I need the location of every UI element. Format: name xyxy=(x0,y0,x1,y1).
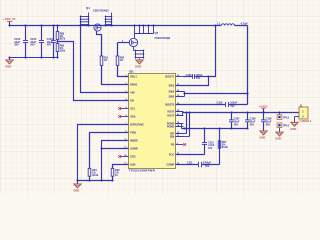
ground C109 xyxy=(259,131,267,140)
svg-text:VOUT: VOUT xyxy=(167,110,175,114)
resistor R90 100k xyxy=(56,42,66,58)
svg-text:4.7uH: 4.7uH xyxy=(241,22,248,25)
svg-text:887k: 887k xyxy=(60,37,66,40)
svg-text:TP14: TP14 xyxy=(283,125,290,128)
wire boot node to SW1 pin xyxy=(176,77,209,86)
capacitor C107 10uF xyxy=(229,113,240,129)
transistor Q7 CSD17304Q3 xyxy=(129,24,170,58)
junction dots on PGND rail xyxy=(183,127,248,129)
svg-text:C106: C106 xyxy=(217,102,223,105)
wire SW2 pins to node xyxy=(176,92,248,97)
svg-text:CSD17304Q3: CSD17304Q3 xyxy=(93,10,109,13)
resistor R95 1k xyxy=(111,165,120,181)
junction dots on VOUT rail xyxy=(185,111,280,113)
capacitor C109 22uF xyxy=(261,113,272,131)
svg-text:25V: 25V xyxy=(47,43,52,47)
svg-text:FB: FB xyxy=(171,143,175,147)
resistor R89 887k xyxy=(56,26,66,42)
wire PGND rail xyxy=(182,128,248,130)
inductor L1 4.7uH xyxy=(217,21,247,25)
power port +5VCN xyxy=(259,104,268,112)
svg-text:TPS55288RPMR: TPS55288RPMR xyxy=(129,169,156,173)
svg-text:VOUT: VOUT xyxy=(167,114,175,118)
node AGND junction xyxy=(100,147,102,149)
wire VOUT pins bracket xyxy=(176,112,183,116)
svg-text:C105: C105 xyxy=(186,74,192,77)
svg-text:50V: 50V xyxy=(196,77,201,80)
IC right pins xyxy=(165,75,183,167)
svg-text:PGND: PGND xyxy=(167,125,175,129)
node divider junction xyxy=(56,40,58,42)
wire ILIM to R95 xyxy=(113,165,129,169)
svg-text:50V: 50V xyxy=(230,105,235,108)
ground bottom left xyxy=(73,181,81,193)
svg-text:SW1: SW1 xyxy=(169,84,175,88)
svg-text:AGND: AGND xyxy=(130,147,138,151)
wire VIN top rail xyxy=(10,25,222,27)
svg-text:DITH/SYNC: DITH/SYNC xyxy=(130,123,144,127)
resistor R91 xyxy=(100,35,109,85)
svg-text:TP13: TP13 xyxy=(283,116,290,119)
resistor R92 xyxy=(116,43,125,77)
power port +VDC_IN xyxy=(3,17,15,26)
wire R92 to DRVL pin xyxy=(118,65,129,76)
svg-text:VIN: VIN xyxy=(130,91,134,95)
svg-text:+VDC_IN: +VDC_IN xyxy=(3,17,15,21)
capacitor C108 22uF xyxy=(245,113,256,129)
capacitor C106 100nF boot2 xyxy=(176,102,248,108)
svg-text:C111: C111 xyxy=(187,162,193,165)
wire ISN sense xyxy=(176,113,190,137)
wire Q7 gate to R92 xyxy=(118,40,130,56)
node boot1 xyxy=(207,75,209,77)
resistor R94 49.9k xyxy=(88,133,99,181)
wire DITH/SYNC to gnd rail xyxy=(78,125,129,181)
node SW2 xyxy=(246,92,248,94)
svg-text:43.2k: 43.2k xyxy=(222,146,229,149)
svg-text:1-282834-2: 1-282834-2 xyxy=(299,120,311,123)
wire rail to VIN pin xyxy=(81,26,129,93)
junction dots on input rail xyxy=(8,24,216,26)
svg-text:GND: GND xyxy=(290,127,296,131)
svg-text:COMP: COMP xyxy=(167,163,175,167)
no-connect X marks SCL SDA CDC FB xyxy=(118,107,186,158)
capacitor C111 2200pF comp xyxy=(176,162,220,168)
svg-text:GND: GND xyxy=(259,136,265,140)
ground input xyxy=(5,58,13,69)
svg-text:Q4: Q4 xyxy=(86,6,90,10)
test point TP14 xyxy=(277,123,289,132)
svg-text:25V: 25V xyxy=(30,43,35,47)
ground Q7 source xyxy=(135,59,143,69)
wire ISP sense xyxy=(176,113,187,134)
wire bottom gnd rail xyxy=(78,180,113,182)
connector J1 1-282834-2 xyxy=(295,105,312,124)
wire input gnd rail xyxy=(10,57,58,59)
wire L1 down to SW2 node xyxy=(247,26,249,105)
svg-text:GND: GND xyxy=(5,65,11,69)
svg-text:16V: 16V xyxy=(234,124,239,127)
svg-text:25V: 25V xyxy=(250,124,255,127)
IC left pins xyxy=(121,75,145,167)
resistor R97 43.2k xyxy=(218,129,228,165)
capacitor C110 4.7uF vcc xyxy=(176,129,215,155)
wire Q4 gate to R91 xyxy=(97,31,102,56)
svg-text:DRL1: DRL1 xyxy=(130,75,137,79)
svg-text:CDC: CDC xyxy=(130,155,136,159)
svg-text:16V: 16V xyxy=(208,147,213,150)
svg-text:SCL: SCL xyxy=(130,107,136,111)
test point TP13 xyxy=(277,113,289,120)
wire AGND join xyxy=(102,148,129,150)
svg-text:CSD17304Q3: CSD17304Q3 xyxy=(155,37,171,40)
svg-text:GND: GND xyxy=(73,189,79,193)
capacitor C105 100nF boot1 xyxy=(184,74,209,80)
capacitor C104 10uF 25V xyxy=(47,26,56,58)
svg-text:50V: 50V xyxy=(205,165,210,168)
svg-text:Q7: Q7 xyxy=(155,31,159,35)
wire FSW to R94 xyxy=(90,133,129,169)
svg-text:25V: 25V xyxy=(14,43,19,47)
svg-text:GND: GND xyxy=(275,137,281,141)
wire VOUT rail xyxy=(183,112,300,114)
svg-text:100k: 100k xyxy=(60,50,66,53)
svg-text:EN: EN xyxy=(130,99,134,103)
svg-text:+5VCN: +5VCN xyxy=(259,104,268,108)
svg-text:BOOT1: BOOT1 xyxy=(165,75,174,79)
svg-text:MODE: MODE xyxy=(130,139,138,143)
capacitor C103 10uF 25V xyxy=(30,26,44,58)
svg-text:25V: 25V xyxy=(266,124,271,127)
wire divider to EN xyxy=(58,42,129,101)
svg-text:SW2: SW2 xyxy=(169,95,175,99)
transistor Q4 CSD17304Q3 xyxy=(80,6,113,31)
svg-text:49.9k: 49.9k xyxy=(92,174,99,177)
wire PGND pins to gnd rail xyxy=(176,124,182,129)
svg-text:DRH1: DRH1 xyxy=(130,83,138,87)
ground TP14 xyxy=(275,132,283,141)
ground J1 xyxy=(290,122,298,131)
svg-text:SW2: SW2 xyxy=(169,90,175,94)
wire MODE down xyxy=(102,141,129,181)
wire SW to boot node xyxy=(209,26,216,77)
svg-text:VCC: VCC xyxy=(169,153,175,157)
wire R91 to DRVH pin xyxy=(102,65,129,84)
capacitor C102 10uF 25V xyxy=(14,26,28,58)
svg-text:FSW: FSW xyxy=(130,131,136,135)
op-amp U21 buck-boost controller xyxy=(129,70,176,173)
svg-text:ISN: ISN xyxy=(170,135,174,139)
svg-text:BOOT2: BOOT2 xyxy=(165,103,174,107)
svg-text:ILIM: ILIM xyxy=(130,163,135,167)
svg-text:SDA: SDA xyxy=(130,115,136,119)
svg-text:GND: GND xyxy=(135,65,141,69)
